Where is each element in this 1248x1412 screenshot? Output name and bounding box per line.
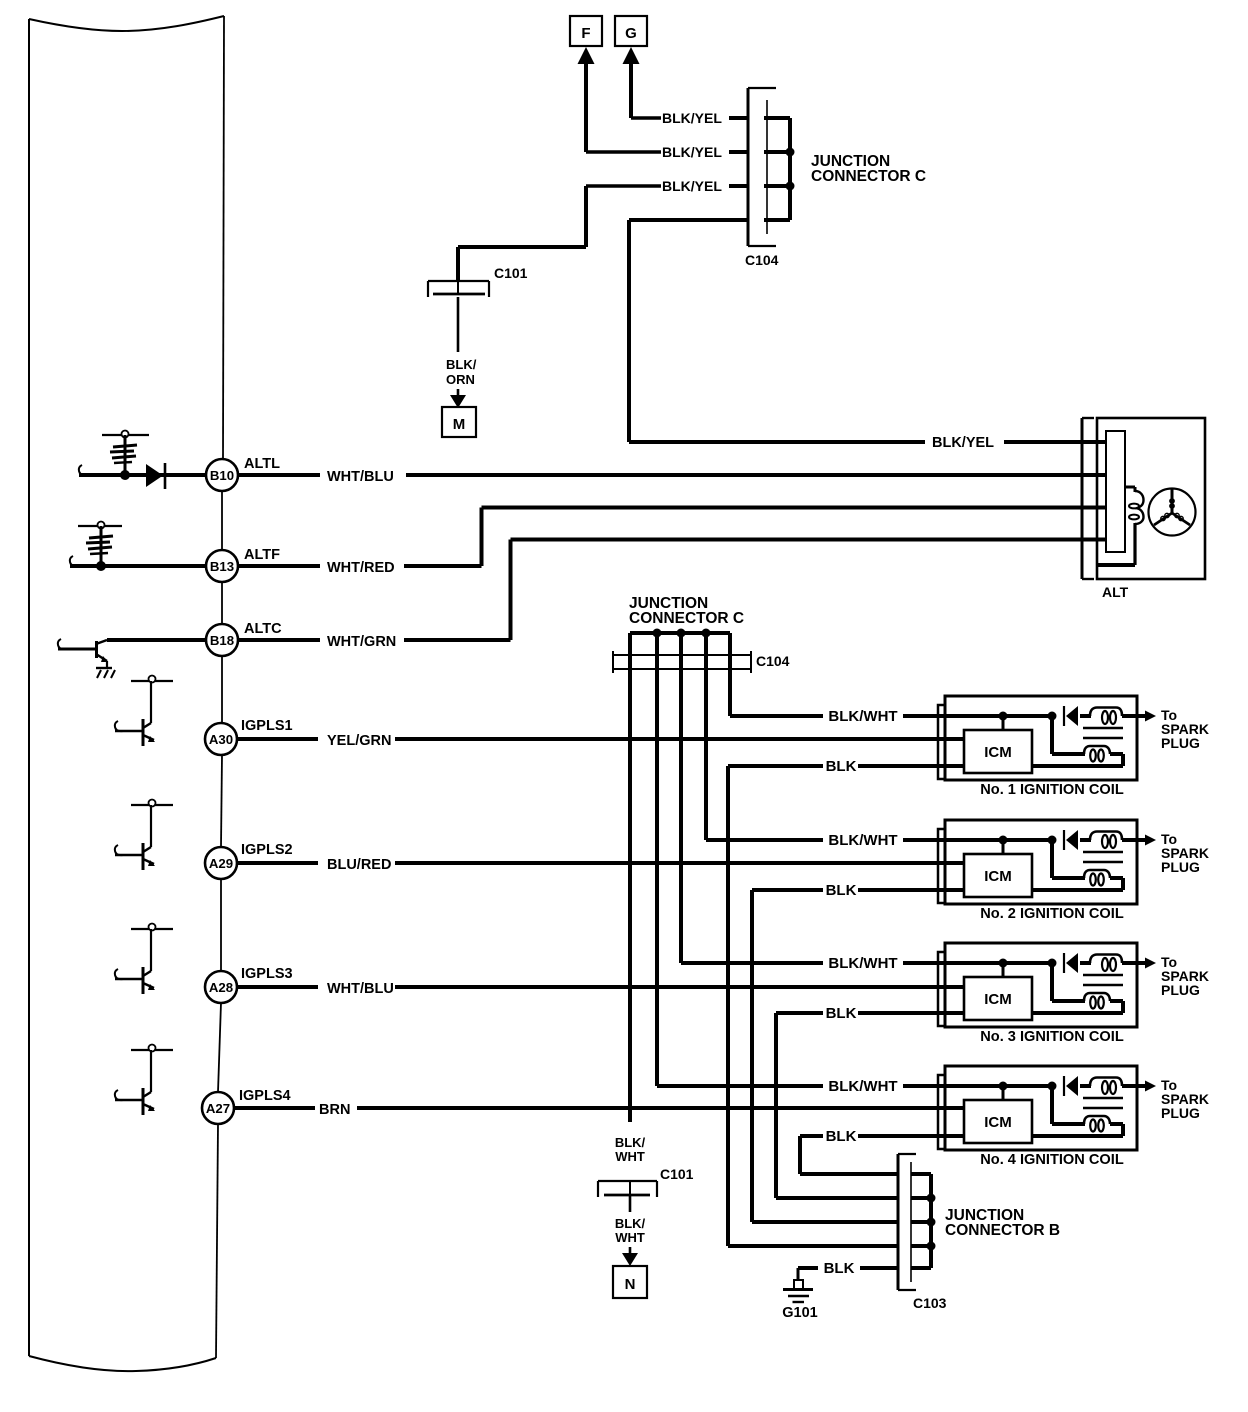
svg-text:G: G bbox=[625, 25, 637, 42]
svg-text:BLK: BLK bbox=[826, 758, 857, 775]
svg-text:A27: A27 bbox=[206, 1101, 230, 1116]
svg-text:N: N bbox=[625, 1276, 636, 1293]
svg-text:ALTL: ALTL bbox=[244, 456, 280, 472]
svg-text:WHT: WHT bbox=[615, 1149, 645, 1164]
svg-text:IGPLS1: IGPLS1 bbox=[241, 718, 293, 734]
svg-text:BLK/YEL: BLK/YEL bbox=[932, 435, 994, 451]
svg-text:BLK: BLK bbox=[824, 1260, 855, 1277]
svg-text:BRN: BRN bbox=[319, 1102, 350, 1118]
svg-text:BLK/WHT: BLK/WHT bbox=[828, 955, 897, 972]
svg-text:B18: B18 bbox=[210, 633, 234, 648]
svg-text:ICM: ICM bbox=[984, 868, 1012, 885]
svg-text:ALTC: ALTC bbox=[244, 621, 282, 637]
svg-text:ICM: ICM bbox=[984, 744, 1012, 761]
svg-text:BLK: BLK bbox=[826, 1005, 857, 1022]
svg-text:G101: G101 bbox=[782, 1305, 817, 1321]
svg-text:No. 3 IGNITION COIL: No. 3 IGNITION COIL bbox=[980, 1029, 1124, 1045]
svg-text:WHT: WHT bbox=[615, 1230, 645, 1245]
svg-text:A29: A29 bbox=[209, 856, 233, 871]
svg-text:ALT: ALT bbox=[1102, 584, 1129, 600]
svg-text:IGPLS3: IGPLS3 bbox=[241, 966, 293, 982]
svg-text:IGPLS4: IGPLS4 bbox=[239, 1088, 291, 1104]
svg-text:BLK/: BLK/ bbox=[446, 357, 477, 372]
svg-text:BLK/: BLK/ bbox=[615, 1216, 646, 1231]
svg-text:C103: C103 bbox=[913, 1295, 947, 1311]
svg-text:CONNECTOR B: CONNECTOR B bbox=[945, 1222, 1060, 1239]
svg-text:BLK/WHT: BLK/WHT bbox=[828, 1078, 897, 1095]
svg-text:A30: A30 bbox=[209, 732, 233, 747]
svg-text:B10: B10 bbox=[210, 468, 234, 483]
svg-text:No. 4 IGNITION COIL: No. 4 IGNITION COIL bbox=[980, 1152, 1124, 1168]
svg-text:ALTF: ALTF bbox=[244, 547, 280, 563]
svg-text:WHT/BLU: WHT/BLU bbox=[327, 981, 394, 997]
svg-text:ICM: ICM bbox=[984, 1114, 1012, 1131]
svg-text:BLK/WHT: BLK/WHT bbox=[828, 832, 897, 849]
svg-text:BLK: BLK bbox=[826, 882, 857, 899]
svg-text:M: M bbox=[453, 416, 466, 433]
svg-text:CONNECTOR C: CONNECTOR C bbox=[811, 168, 926, 185]
svg-text:PLUG: PLUG bbox=[1161, 735, 1200, 751]
svg-text:BLK/WHT: BLK/WHT bbox=[828, 708, 897, 725]
svg-text:PLUG: PLUG bbox=[1161, 859, 1200, 875]
svg-text:BLK/YEL: BLK/YEL bbox=[662, 110, 722, 126]
svg-text:PLUG: PLUG bbox=[1161, 982, 1200, 998]
svg-text:ORN: ORN bbox=[446, 372, 475, 387]
svg-text:YEL/GRN: YEL/GRN bbox=[327, 733, 391, 749]
svg-text:F: F bbox=[581, 25, 590, 42]
svg-text:B13: B13 bbox=[210, 559, 234, 574]
svg-text:BLK/: BLK/ bbox=[615, 1135, 646, 1150]
svg-text:BLK/YEL: BLK/YEL bbox=[662, 144, 722, 160]
svg-text:IGPLS2: IGPLS2 bbox=[241, 842, 293, 858]
svg-text:ICM: ICM bbox=[984, 991, 1012, 1008]
svg-text:WHT/RED: WHT/RED bbox=[327, 560, 395, 576]
svg-text:BLK/YEL: BLK/YEL bbox=[662, 178, 722, 194]
svg-text:WHT/GRN: WHT/GRN bbox=[327, 634, 396, 650]
svg-text:A28: A28 bbox=[209, 980, 233, 995]
svg-text:PLUG: PLUG bbox=[1161, 1105, 1200, 1121]
svg-text:No. 2 IGNITION COIL: No. 2 IGNITION COIL bbox=[980, 906, 1124, 922]
svg-text:No. 1 IGNITION COIL: No. 1 IGNITION COIL bbox=[980, 782, 1124, 798]
svg-text:CONNECTOR C: CONNECTOR C bbox=[629, 610, 744, 627]
svg-text:WHT/BLU: WHT/BLU bbox=[327, 469, 394, 485]
svg-text:BLK: BLK bbox=[826, 1128, 857, 1145]
svg-text:C101: C101 bbox=[660, 1166, 694, 1182]
svg-text:BLU/RED: BLU/RED bbox=[327, 857, 391, 873]
svg-text:C104: C104 bbox=[756, 653, 790, 669]
svg-text:C101: C101 bbox=[494, 265, 528, 281]
svg-text:C104: C104 bbox=[745, 252, 779, 268]
